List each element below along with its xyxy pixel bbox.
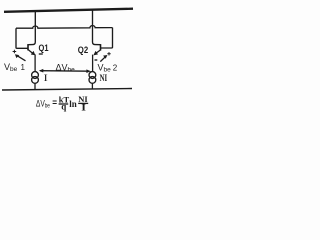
svg-text:Q2: Q2 [78, 45, 88, 55]
svg-text:I: I [44, 73, 48, 83]
svg-text:Q1: Q1 [39, 43, 49, 53]
svg-text:ln: ln [69, 99, 77, 109]
svg-text:q: q [61, 102, 66, 112]
svg-text:NI: NI [100, 74, 108, 84]
svg-text:I: I [81, 103, 86, 113]
svg-text:be: be [45, 102, 50, 109]
svg-text:ΔV: ΔV [36, 98, 45, 108]
svg-text:=: = [52, 97, 57, 107]
